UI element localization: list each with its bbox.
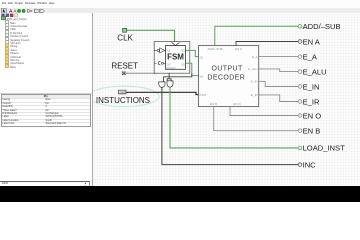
output pin LOAD_INST (298, 146, 302, 150)
svg-text:EN O: EN O (233, 102, 241, 106)
wire stub to inverter (154, 49, 165, 51)
svg-text:RESET: RESET (166, 66, 176, 70)
output pin ADD/-SUB (298, 24, 302, 28)
svg-text:EN A: EN A (302, 37, 320, 46)
subcircuit U2 OUTPUT DECODER box (198, 46, 258, 107)
wire EN A (235, 41, 297, 45)
wire to right AND gate (167, 73, 171, 81)
output pin EN A (298, 40, 302, 44)
wire E_ALU (258, 69, 297, 72)
svg-text:LOAD_INST: LOAD_INST (302, 144, 344, 153)
input pin CLK (122, 28, 126, 32)
svg-text:OUTPUT: OUTPUT (211, 65, 242, 72)
svg-text:EN B: EN B (210, 102, 217, 106)
svg-text:INST: INST (199, 93, 206, 97)
svg-text:E_IN: E_IN (251, 79, 258, 83)
bus wire INSTUCTIONS to decoder INST (125, 92, 198, 94)
subcircuit U1 FSM outer box (154, 42, 190, 74)
svg-text:E_A: E_A (302, 52, 317, 61)
AND gate G2 facing down (167, 81, 173, 87)
output pin EN B (298, 129, 302, 133)
svg-text:E_IN: E_IN (302, 82, 319, 91)
inverter on FSM input (157, 48, 165, 53)
clock input symbol (154, 61, 165, 64)
AND gate G1 facing down (158, 82, 164, 87)
wire EN B (213, 107, 297, 131)
wire FSM S1 out to decoder (185, 50, 198, 56)
svg-text:S1: S1 (199, 55, 203, 59)
svg-text:EN O: EN O (302, 111, 321, 120)
wire CLK to FSM clock notch (126, 30, 174, 43)
svg-text:INC: INC (302, 160, 316, 169)
svg-text:EN B: EN B (302, 126, 320, 135)
svg-text:S0: S0 (199, 74, 203, 78)
svg-text:INSTUCTIONS: INSTUCTIONS (95, 96, 149, 105)
FSM inner box (165, 45, 185, 69)
svg-text:FSM: FSM (167, 52, 184, 61)
svg-text:CLK: CLK (117, 34, 133, 43)
svg-text:E_A: E_A (252, 55, 258, 59)
svg-text:ADD/–SUB: ADD/–SUB (207, 47, 222, 51)
svg-text:E_ALU: E_ALU (248, 67, 257, 71)
svg-text:0000: 0000 (119, 90, 125, 94)
svg-text:E_IR: E_IR (302, 97, 319, 106)
wire FSM bottom feed (163, 73, 191, 82)
output pin E_IN (298, 85, 302, 89)
wire EN O (229, 107, 297, 116)
wire INC from gate G1 (161, 87, 297, 164)
svg-text:DECODER: DECODER (207, 74, 245, 81)
svg-text:E_ALU: E_ALU (302, 67, 326, 76)
input pin INSTUCTIONS (4-bit) (118, 90, 125, 94)
wire E_A (258, 56, 297, 58)
wire E_IN (258, 81, 297, 86)
svg-text:E_IR: E_IR (251, 93, 258, 97)
output pin E_IR (298, 100, 302, 104)
output pin E_A (298, 55, 302, 59)
output pin EN O (298, 114, 302, 118)
output pin INC (298, 163, 302, 167)
output pin E_ALU (298, 70, 302, 74)
halo on selected pin (88, 86, 159, 106)
wire ADD/-SUB (214, 26, 297, 45)
FSM facing notch (171, 42, 179, 45)
wire FSM S0 out to decoder (185, 63, 198, 75)
svg-text:EN A: EN A (235, 47, 242, 51)
input pin RESET (122, 72, 125, 75)
wire LOAD_INST from gate G2 (170, 87, 298, 148)
svg-text:ADD/–SUB: ADD/–SUB (302, 22, 340, 31)
svg-text:RESET: RESET (111, 62, 138, 71)
wire RESET to FSM (125, 72, 156, 74)
svg-text:S0: S0 (180, 63, 184, 67)
wire E_IR (258, 95, 297, 102)
